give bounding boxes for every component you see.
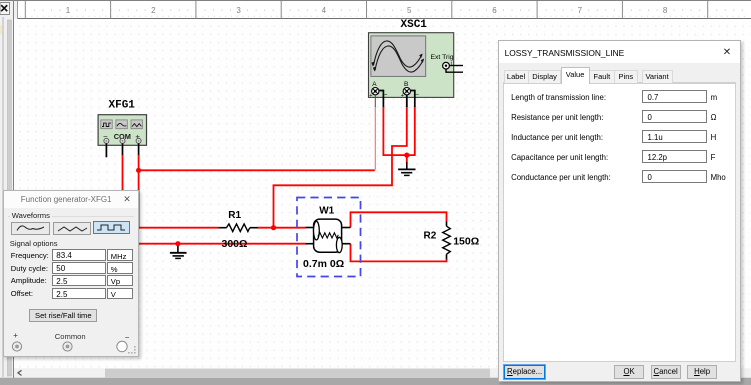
svg-text:B: B bbox=[404, 81, 408, 88]
svg-text:R1: R1 bbox=[228, 210, 241, 221]
svg-text:−: − bbox=[415, 92, 419, 99]
svg-text:+: + bbox=[401, 93, 404, 99]
horizontal scrollbar bbox=[14, 368, 751, 377]
tab content bbox=[503, 83, 737, 362]
wire: plus junction to scope A+ (horizontal) bbox=[139, 169, 375, 171]
wire: scope B- down to ground row bbox=[407, 107, 415, 156]
wire pin stub B- bbox=[411, 91, 415, 108]
waveform trace on screen bbox=[375, 46, 424, 72]
ground symbol G1 bbox=[170, 244, 187, 259]
wire pin stub A+ bbox=[374, 95, 376, 107]
set rise/fall button bbox=[29, 309, 97, 322]
function generator XFG1 bbox=[98, 115, 146, 158]
wire: R1 right to W1 left-top bbox=[257, 227, 305, 229]
wire pin stub A- bbox=[379, 91, 383, 108]
wire: scope A+ vertical (thin) bbox=[374, 107, 376, 170]
footer buttons bbox=[504, 365, 545, 380]
svg-text:150Ω: 150Ω bbox=[453, 235, 479, 247]
ground symbol G2 bbox=[398, 155, 415, 175]
square wave icon bbox=[102, 123, 111, 126]
node: junction ground rail G1 bbox=[175, 241, 180, 246]
status bar bbox=[0, 378, 751, 385]
left chrome strips bbox=[0, 1, 14, 378]
svg-text:W1: W1 bbox=[319, 205, 334, 216]
tabs bbox=[503, 69, 737, 84]
wire: scope A- down to ground row bbox=[383, 107, 406, 156]
wire pin stub XFG1 COM bbox=[122, 143, 124, 154]
wire: W1 right-bottom to R2 bottom bbox=[351, 244, 447, 262]
Ext Trig terminal bbox=[443, 62, 450, 69]
node: junction R1/W1/scope B+ bbox=[271, 225, 276, 230]
oscilloscope XSC1 bbox=[369, 33, 464, 107]
signal table bbox=[10, 248, 12, 250]
node: junction scope ground bbox=[404, 153, 409, 158]
transmission line W1 bbox=[297, 198, 361, 277]
svg-text:XFG1: XFG1 bbox=[109, 100, 136, 112]
svg-text:+: + bbox=[369, 93, 372, 99]
Function generator dialog bbox=[3, 190, 139, 358]
wire: XFG1 plus terminal down to R1 row bbox=[139, 155, 219, 228]
triangle wave icon bbox=[132, 124, 141, 127]
wire pin stub W1 right-bottom bbox=[342, 243, 351, 245]
wire: COM to ground rail under W1 bbox=[123, 155, 306, 244]
wave buttons bbox=[11, 222, 51, 236]
B terminal bbox=[401, 88, 419, 100]
svg-text:−: − bbox=[384, 92, 388, 99]
resistor R2 bbox=[424, 222, 480, 260]
sine wave icon bbox=[117, 123, 126, 126]
selection box (blue dashed) bbox=[297, 198, 361, 277]
svg-text:XSC1: XSC1 bbox=[401, 19, 428, 31]
svg-text:A: A bbox=[372, 81, 377, 88]
svg-text:0.7m 0Ω: 0.7m 0Ω bbox=[303, 258, 344, 270]
horizontal ruler bbox=[18, 1, 751, 19]
LOSSY_TRANSMISSION_LINE dialog bbox=[498, 40, 742, 383]
svg-text:300Ω: 300Ω bbox=[222, 238, 248, 250]
wire pin stub W1 left-bottom bbox=[306, 243, 314, 245]
node: junction XFG1 plus bbox=[136, 168, 141, 173]
svg-text:R2: R2 bbox=[424, 230, 437, 241]
wire: scope B+ down-left path to junction bbox=[274, 107, 407, 228]
bottom terminals bbox=[13, 331, 18, 340]
wire pin stub XFG1 minus bbox=[105, 143, 107, 157]
top border line bbox=[0, 0, 751, 2]
wire: W1 right-top to R2 top bbox=[351, 212, 447, 227]
wire pin stub W1 right-top bbox=[342, 227, 351, 229]
wire pin stub W1 left-top bbox=[306, 227, 314, 229]
wire pin stub XFG1 plus bbox=[138, 143, 140, 154]
wire pin stub B+ bbox=[406, 95, 408, 107]
A terminal bbox=[369, 88, 388, 100]
resistor R1 bbox=[219, 210, 258, 250]
